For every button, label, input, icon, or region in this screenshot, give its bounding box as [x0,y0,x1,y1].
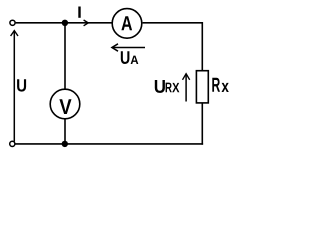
voltage arrow UA [113,47,145,49]
voltage arrow U (source) [13,31,15,141]
voltage arrow URX [185,74,187,101]
wire bottom (terminal to right corner) [15,143,203,145]
wire voltmeter to bottom junction [64,118,66,143]
label Rx [212,78,220,92]
wire right vertical (resistor to bottom corner) [201,103,203,145]
label URX [155,80,165,93]
voltmeter V [50,89,80,119]
node junction bottom [62,141,68,147]
node junction top [62,20,68,26]
wire top-right (ammeter to corner, down to resistor) [143,23,203,71]
label I [78,7,80,18]
label U [17,79,26,91]
wire top (terminal to ammeter) [16,22,112,24]
ammeter A [112,9,142,39]
terminal top-left [10,20,15,25]
resistor Rx [196,71,208,103]
label UA [121,51,130,64]
terminal bottom-left [10,141,15,146]
current arrow I [84,20,89,26]
wire middle vertical (junction to voltmeter) [64,23,66,90]
